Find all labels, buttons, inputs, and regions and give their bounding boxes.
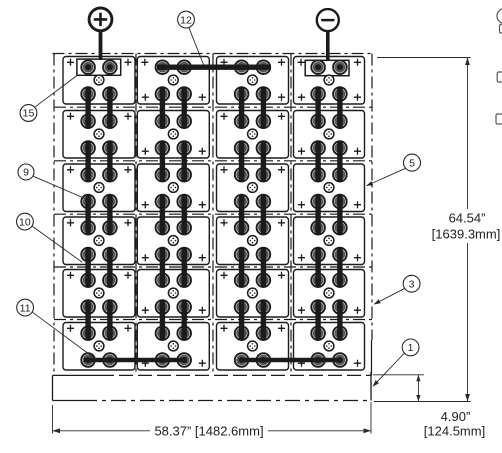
svg-text:4.90”: 4.90” <box>441 409 471 424</box>
battery B23 (row 6 col 3) <box>217 323 289 371</box>
vent cap row4 col1 <box>94 236 104 246</box>
vent cap row3 col4 <box>324 183 334 193</box>
svg-text:64.54”: 64.54” <box>449 211 486 226</box>
strap wire col2 row1-2 <box>160 87 165 128</box>
positive terminal symbol <box>89 8 112 31</box>
cut-off legend box 1 <box>500 25 502 34</box>
battery B8 (row 2 col 4) <box>294 111 365 159</box>
vent cap row3 col1 <box>94 183 104 193</box>
strap wire col4 row4-5 <box>337 248 342 288</box>
callout 9 leader <box>34 176 87 199</box>
callout 1 leader <box>373 353 405 387</box>
strap wire col4 row1-2 <box>315 87 320 128</box>
posts battery row3 col2 <box>156 168 191 208</box>
strap wire col2 row5-6 <box>160 300 165 340</box>
strap wire col3 row2-3 <box>261 141 266 182</box>
svg-text:12: 12 <box>180 14 192 26</box>
cut-off legend box 2 <box>497 72 502 82</box>
battery B22 (row 6 col 2) <box>137 323 209 371</box>
vent cap row6 col1 <box>94 341 104 351</box>
strap wire col3 row3-4 <box>239 195 244 235</box>
battery B19 (row 5 col 3) <box>217 270 289 318</box>
vent cap row6 col3 <box>248 341 258 351</box>
posts battery row1 col1 <box>81 60 116 100</box>
bottom strap (col3-col4) <box>240 358 342 363</box>
svg-text:[1639.3mm]: [1639.3mm] <box>432 227 501 242</box>
strap wire col4 row5-6 <box>315 300 320 340</box>
callout 3 <box>403 275 420 292</box>
battery B20 (row 5 col 4) <box>294 270 365 318</box>
battery B12 (row 3 col 4) <box>294 164 365 212</box>
strap wire col3 row5-6 <box>239 300 244 340</box>
cut-off callout circle (right margin) <box>497 9 502 24</box>
strap wire col4 row3-4 <box>315 195 320 235</box>
top busbar strap (col2-col3) <box>157 64 271 69</box>
strap wire col1 row5-6 <box>107 300 112 340</box>
svg-text:1: 1 <box>408 342 414 354</box>
posts battery row2 col3 <box>235 114 270 154</box>
strap wire col1 row1-2 <box>85 87 90 128</box>
callout 5 <box>404 154 421 171</box>
vent cap row2 col4 <box>324 129 334 139</box>
tray right edge <box>370 372 372 401</box>
battery B14 (row 4 col 2) <box>137 217 209 265</box>
battery B3 (row 1 col 3) <box>217 57 289 105</box>
callout 9 <box>18 164 34 180</box>
battery B17 (row 5 col 1) <box>63 270 135 318</box>
callout 12 <box>178 11 195 28</box>
callout 3 leader <box>374 288 405 304</box>
battery B18 (row 5 col 2) <box>137 270 209 318</box>
callout 15 leader <box>35 76 77 107</box>
posts battery row2 col2 <box>156 114 191 154</box>
battery B11 (row 3 col 3) <box>217 164 289 212</box>
svg-text:5: 5 <box>409 157 415 169</box>
rack outline right edge <box>371 54 374 376</box>
posts battery row2 col1 <box>81 114 116 154</box>
strap wire col2 row4-5 <box>181 248 186 288</box>
posts battery row4 col4 <box>311 221 346 261</box>
dimension 64.54 bottom extension line <box>374 401 471 403</box>
posts battery row1 col4 <box>311 60 346 100</box>
vent cap row3 col3 <box>248 183 258 193</box>
posts battery row4 col1 <box>81 221 116 261</box>
svg-text:15: 15 <box>23 108 35 120</box>
battery B21 (row 6 col 1) <box>63 323 135 371</box>
tray top edge <box>53 374 372 376</box>
strap wire col4 row2-3 <box>337 141 342 182</box>
strap wire col4 row5-6 <box>337 300 342 340</box>
vent cap row5 col2 <box>168 288 178 298</box>
strap wire col1 row1-2 <box>107 87 112 128</box>
dimension 58.37 line <box>53 428 372 433</box>
rack outline left edge <box>53 54 55 376</box>
vent cap row1 col2 <box>168 75 178 85</box>
rack shelf line 3 <box>54 213 372 215</box>
callout 11 <box>17 299 34 316</box>
tray left edge <box>52 375 54 400</box>
strap wire col1 row2-3 <box>85 141 90 182</box>
negative terminal symbol <box>317 9 339 31</box>
posts battery row6 col1 <box>81 326 116 366</box>
strap wire col4 row3-4 <box>337 195 342 235</box>
strap wire col3 row5-6 <box>261 300 266 340</box>
dimension 4.90 line <box>416 375 420 402</box>
dimension 58.37 right extension line <box>370 402 372 434</box>
vent cap row2 col2 <box>168 129 178 139</box>
posts battery row6 col3 <box>235 326 270 366</box>
posts battery row1 col3 <box>235 60 270 100</box>
strap wire col2 row2-3 <box>160 141 165 182</box>
strap wire col3 row1-2 <box>261 87 266 128</box>
strap wire col1 row3-4 <box>85 195 90 235</box>
vent cap row1 col1 <box>94 75 104 85</box>
battery B6 (row 2 col 2) <box>137 111 209 159</box>
strap wire col3 row1-2 <box>239 87 244 128</box>
posts battery row5 col1 <box>81 273 116 313</box>
vent cap row5 col1 <box>94 288 104 298</box>
vent cap row4 col2 <box>168 236 178 246</box>
strap wire col2 row3-4 <box>160 195 165 235</box>
svg-text:9: 9 <box>23 167 29 179</box>
posts battery row3 col1 <box>81 168 116 208</box>
negative terminal plate <box>305 60 349 75</box>
battery B4 (row 1 col 4) <box>294 57 365 105</box>
strap wire col2 row1-2 <box>181 87 186 128</box>
positive terminal lead wire <box>99 31 103 60</box>
posts battery row5 col2 <box>156 273 191 313</box>
strap wire col1 row4-5 <box>85 248 90 288</box>
battery B10 (row 3 col 2) <box>137 164 209 212</box>
vent cap row6 col4 <box>324 341 334 351</box>
strap wire col4 row4-5 <box>315 248 320 288</box>
strap wire col3 row4-5 <box>261 248 266 288</box>
svg-text:11: 11 <box>20 302 31 314</box>
vent cap row3 col2 <box>168 183 178 193</box>
posts battery row2 col4 <box>311 114 346 154</box>
strap wire col2 row4-5 <box>160 248 165 288</box>
svg-text:[124.5mm]: [124.5mm] <box>424 424 485 439</box>
dimension 4.90 top extension line <box>373 374 424 376</box>
posts battery row1 col2 <box>156 60 191 100</box>
tray bottom edge <box>53 400 372 402</box>
strap wire col4 row1-2 <box>337 87 342 128</box>
dimension 64.54 line <box>465 58 470 402</box>
strap wire col4 row2-3 <box>315 141 320 182</box>
strap wire col3 row4-5 <box>239 248 244 288</box>
battery B24 (row 6 col 4) <box>294 323 365 371</box>
vent cap row5 col4 <box>324 288 334 298</box>
rack shelf line 4 <box>54 266 372 268</box>
rack divider line 1 <box>135 54 137 374</box>
strap wire col2 row3-4 <box>181 195 186 235</box>
vent cap row4 col4 <box>324 236 334 246</box>
strap wire col1 row2-3 <box>107 141 112 182</box>
rack divider line 3 <box>290 54 292 374</box>
strap wire col1 row5-6 <box>85 300 90 340</box>
positive terminal plate <box>77 59 121 75</box>
vent cap row2 col3 <box>248 129 258 139</box>
strap wire col3 row2-3 <box>239 141 244 182</box>
strap wire col1 row4-5 <box>107 248 112 288</box>
battery B7 (row 2 col 3) <box>217 111 289 159</box>
posts battery row3 col4 <box>311 168 346 208</box>
strap wire col3 row3-4 <box>261 195 266 235</box>
battery B15 (row 4 col 3) <box>217 217 289 265</box>
battery B16 (row 4 col 4) <box>294 217 365 265</box>
rack outline top edge <box>53 53 373 55</box>
svg-text:3: 3 <box>409 278 415 290</box>
callout 1 <box>402 339 419 356</box>
callout 11 leader <box>33 312 97 360</box>
callout 15 <box>20 105 37 122</box>
posts battery row4 col2 <box>156 221 191 261</box>
vent cap row2 col1 <box>94 129 104 139</box>
dimension 64.54 top extension line <box>377 57 471 59</box>
battery B9 (row 3 col 1) <box>63 164 135 212</box>
callout 12 leader <box>189 27 204 64</box>
callout 10 <box>17 213 34 230</box>
rack divider line 2 <box>212 54 214 374</box>
posts battery row6 col4 <box>311 326 346 366</box>
rack shelf line 5 <box>54 319 372 321</box>
callout 10 leader <box>32 226 82 262</box>
vent cap row4 col3 <box>248 236 258 246</box>
battery B5 (row 2 col 1) <box>63 111 135 159</box>
posts battery row5 col3 <box>235 273 270 313</box>
strap wire col2 row2-3 <box>181 141 186 182</box>
battery B1 (row 1 col 1) <box>63 57 135 105</box>
dimension 58.37 left extension line <box>52 405 54 434</box>
posts battery row5 col4 <box>311 273 346 313</box>
battery B2 (row 1 col 2) <box>137 57 209 105</box>
posts battery row4 col3 <box>235 221 270 261</box>
vent cap row1 col4 <box>324 75 334 85</box>
strap wire col1 row3-4 <box>107 195 112 235</box>
callout 5 leader <box>366 168 406 186</box>
cut-off legend box 3 <box>496 114 502 124</box>
svg-text:10: 10 <box>19 216 31 228</box>
negative terminal lead wire <box>326 32 330 62</box>
rack shelf line 1 <box>54 106 372 108</box>
vent cap row6 col2 <box>168 341 178 351</box>
bottom strap (col1-col2) <box>84 358 187 363</box>
battery B13 (row 4 col 1) <box>63 217 135 265</box>
posts battery row3 col3 <box>235 168 270 208</box>
svg-text:58.37” [1482.6mm]: 58.37” [1482.6mm] <box>154 424 263 439</box>
strap wire col2 row5-6 <box>181 300 186 340</box>
posts battery row6 col2 <box>156 326 191 366</box>
vent cap row1 col3 <box>248 75 258 85</box>
rack shelf line 2 <box>54 160 372 162</box>
vent cap row5 col3 <box>248 288 258 298</box>
